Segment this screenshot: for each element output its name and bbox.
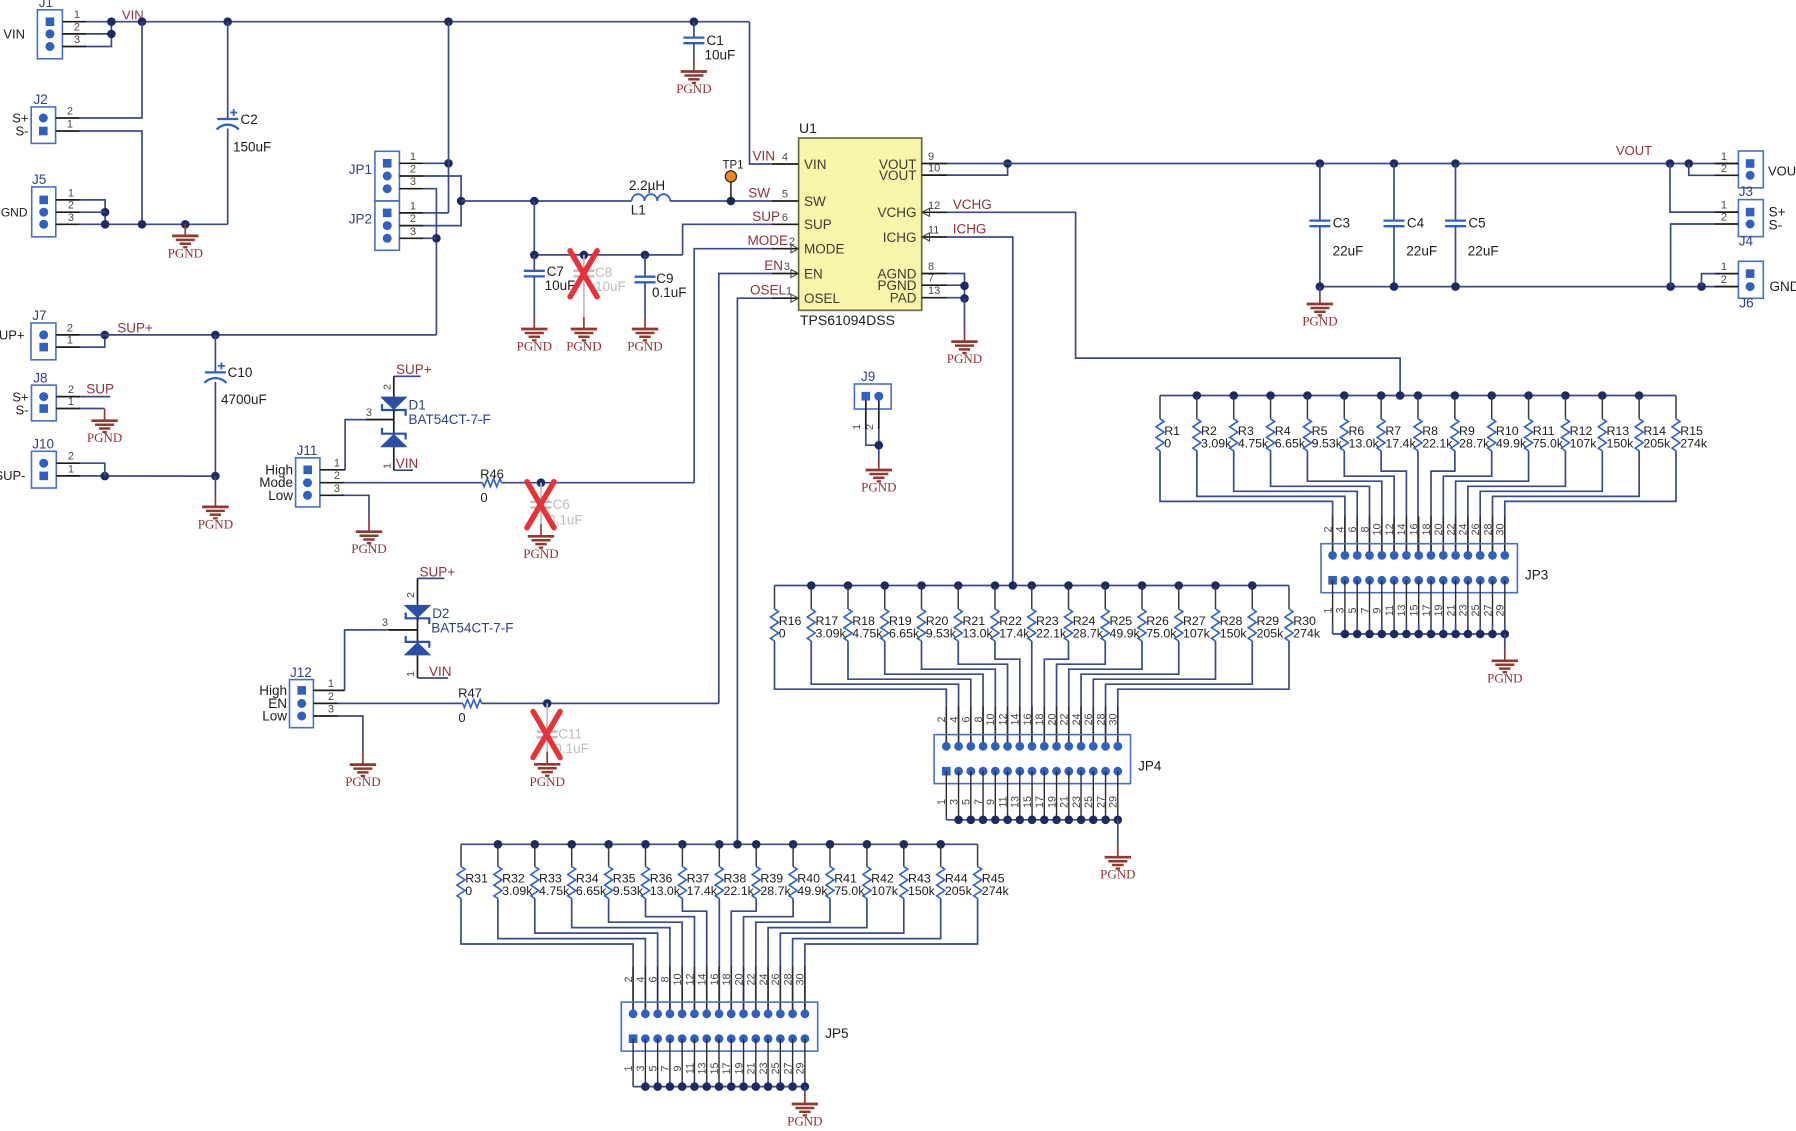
wire J2 S- to GND bus xyxy=(80,131,142,224)
svg-text:6.65k: 6.65k xyxy=(889,627,920,641)
wire R45 to JP5 pin 30 xyxy=(805,899,978,1014)
wire R6 to JP3 pin 12 xyxy=(1344,451,1394,556)
resistor R13 xyxy=(1598,396,1634,451)
JP3 even pin numbers xyxy=(1322,523,1506,535)
wire R26 to JP4 pin 22 xyxy=(1069,641,1142,746)
connector J8 xyxy=(12,370,80,421)
svg-text:SW: SW xyxy=(748,186,770,201)
connector J1 xyxy=(3,0,86,59)
connector J11 xyxy=(259,443,345,507)
wire R9 to JP3 pin 18 xyxy=(1431,451,1455,556)
svg-text:3: 3 xyxy=(334,483,340,495)
U1 pin 11 ICHG stub xyxy=(922,225,947,242)
svg-text:JP3: JP3 xyxy=(1525,568,1548,583)
capacitor C3 xyxy=(1309,164,1363,287)
wire R19 to JP4 pin 8 xyxy=(885,641,983,746)
svg-text:PGND: PGND xyxy=(627,339,662,354)
resistor R44 xyxy=(937,844,973,898)
wire J6.1 to GND bus xyxy=(1702,274,1715,287)
wire R37 to JP5 pin 14 xyxy=(682,899,706,1014)
svg-text:150k: 150k xyxy=(1220,627,1248,641)
svg-text:S-: S- xyxy=(16,403,29,418)
svg-text:1: 1 xyxy=(334,457,340,469)
svg-text:30: 30 xyxy=(1495,523,1507,535)
svg-text:SUP-: SUP- xyxy=(0,468,26,483)
svg-text:1: 1 xyxy=(851,424,863,430)
svg-text:16: 16 xyxy=(1022,713,1034,725)
capacitor C5 xyxy=(1445,164,1499,287)
ground PGND at U1 PAD xyxy=(947,330,982,366)
IC U1 TPS61094DSS xyxy=(799,120,922,328)
svg-text:PGND: PGND xyxy=(523,546,558,561)
ground PGND at C11 xyxy=(529,752,564,789)
wire cap bus xyxy=(530,251,683,260)
svg-text:PGND: PGND xyxy=(947,351,982,366)
U1 pin 3 EN stub xyxy=(772,261,799,278)
svg-text:28.7k: 28.7k xyxy=(760,884,791,898)
svg-text:75.0k: 75.0k xyxy=(1146,627,1177,641)
svg-text:6.65k: 6.65k xyxy=(576,884,607,898)
svg-text:C1: C1 xyxy=(707,33,724,48)
wire R29 to JP4 pin 28 xyxy=(1106,641,1253,746)
ground PGND at J11 xyxy=(351,520,386,556)
connector J2 xyxy=(12,92,79,143)
svg-text:75.0k: 75.0k xyxy=(834,884,865,898)
capacitor C1 xyxy=(683,22,735,63)
resistor R2 xyxy=(1193,396,1232,451)
svg-text:2: 2 xyxy=(864,424,876,430)
connector J6 xyxy=(1714,261,1796,310)
svg-text:22uF: 22uF xyxy=(1333,244,1364,259)
wire R33 to JP5 pin 6 xyxy=(535,899,658,1014)
U1 pin 7 PGND stub xyxy=(922,273,947,286)
svg-text:EN: EN xyxy=(804,266,823,281)
resistor R30 xyxy=(1285,586,1321,642)
wire J10 pin tie xyxy=(80,463,105,476)
svg-text:10: 10 xyxy=(985,713,997,725)
svg-text:0: 0 xyxy=(779,627,786,641)
svg-text:MODE: MODE xyxy=(748,233,789,248)
svg-text:1: 1 xyxy=(1721,261,1727,273)
svg-text:22: 22 xyxy=(1059,713,1071,725)
svg-text:9: 9 xyxy=(928,151,934,163)
svg-text:VOUT: VOUT xyxy=(879,168,917,183)
svg-text:C9: C9 xyxy=(656,271,673,286)
svg-text:Low: Low xyxy=(262,709,287,724)
svg-text:18: 18 xyxy=(1421,523,1433,535)
svg-text:D2: D2 xyxy=(432,606,449,621)
svg-text:4: 4 xyxy=(635,976,647,982)
resistor R47 xyxy=(458,686,482,726)
wire R35 to JP5 pin 10 xyxy=(609,899,683,1014)
svg-text:ICHG: ICHG xyxy=(953,222,987,237)
svg-text:4700uF: 4700uF xyxy=(221,392,267,407)
svg-text:PGND: PGND xyxy=(345,774,380,789)
wire SUP riser xyxy=(683,224,772,255)
wire EN riser to U1 xyxy=(719,274,772,704)
svg-text:9.53k: 9.53k xyxy=(1312,436,1343,450)
resistor R38 xyxy=(715,844,754,898)
svg-text:PGND: PGND xyxy=(168,245,203,260)
resistor R22 xyxy=(991,586,1030,642)
svg-text:1: 1 xyxy=(68,463,74,475)
wire OSEL riser to U1 xyxy=(737,298,772,844)
svg-text:6: 6 xyxy=(961,716,973,722)
svg-text:205k: 205k xyxy=(1256,627,1284,641)
svg-text:6: 6 xyxy=(1347,526,1359,532)
resistor R4 xyxy=(1267,396,1306,451)
svg-text:VIN: VIN xyxy=(3,27,25,42)
ground PGND at C1 xyxy=(676,60,711,97)
net label SUP xyxy=(80,382,114,397)
svg-text:VCHG: VCHG xyxy=(877,205,916,220)
svg-text:9.53k: 9.53k xyxy=(926,627,957,641)
resistor R18 xyxy=(844,586,883,642)
wire R18 to JP4 pin 6 xyxy=(848,641,971,746)
svg-text:2: 2 xyxy=(68,451,74,463)
svg-text:18: 18 xyxy=(1034,713,1046,725)
wire JP5 bottom bus to ground xyxy=(633,1039,809,1091)
svg-text:49.9k: 49.9k xyxy=(1109,627,1140,641)
svg-text:PGND: PGND xyxy=(1302,314,1337,329)
svg-text:22.1k: 22.1k xyxy=(1036,627,1067,641)
resistor R42 xyxy=(863,844,899,898)
svg-text:20: 20 xyxy=(1433,523,1445,535)
svg-text:10: 10 xyxy=(1372,523,1384,535)
svg-text:8: 8 xyxy=(928,261,934,273)
svg-text:1: 1 xyxy=(328,678,334,690)
ground PGND at JP5 xyxy=(787,1087,822,1129)
wire R39 to JP5 pin 18 xyxy=(731,899,756,1014)
svg-text:2: 2 xyxy=(74,21,80,33)
svg-text:16: 16 xyxy=(709,973,721,985)
svg-text:VCHG: VCHG xyxy=(953,197,992,212)
resistor R7 xyxy=(1377,396,1416,451)
svg-text:3.09k: 3.09k xyxy=(815,627,846,641)
svg-text:JP5: JP5 xyxy=(825,1026,848,1041)
test point TP1 xyxy=(722,160,743,202)
resistor R9 xyxy=(1451,396,1490,451)
U1 pin 12 VCHG stub xyxy=(922,200,947,217)
svg-text:28.7k: 28.7k xyxy=(1459,436,1490,450)
wire R12 to JP3 pin 24 xyxy=(1468,451,1566,556)
wire R5 to JP3 pin 10 xyxy=(1307,451,1381,556)
resistor R45 xyxy=(974,844,1010,898)
svg-text:14: 14 xyxy=(1396,523,1408,535)
svg-text:24: 24 xyxy=(1458,523,1470,535)
svg-text:J11: J11 xyxy=(297,443,318,458)
svg-text:75.0k: 75.0k xyxy=(1533,436,1564,450)
net label VOUT xyxy=(1616,143,1652,158)
svg-text:0: 0 xyxy=(458,710,465,725)
header JP4 xyxy=(934,735,1162,784)
svg-text:1: 1 xyxy=(405,671,417,677)
svg-text:C7: C7 xyxy=(547,264,564,279)
svg-text:28.7k: 28.7k xyxy=(1073,627,1104,641)
svg-text:JP1: JP1 xyxy=(349,162,372,177)
resistor R6 xyxy=(1340,396,1379,451)
svg-text:MODE: MODE xyxy=(804,242,845,257)
svg-text:18: 18 xyxy=(721,973,733,985)
svg-text:ICHG: ICHG xyxy=(883,230,917,245)
ground PGND at J8 xyxy=(87,409,122,446)
svg-text:VOUT: VOUT xyxy=(1768,164,1796,179)
svg-text:Low: Low xyxy=(268,488,293,503)
resistor R19 xyxy=(881,586,920,642)
net label SW at U1 xyxy=(748,186,770,201)
ground PGND at C9 xyxy=(627,317,662,354)
svg-text:8: 8 xyxy=(1359,526,1371,532)
resistor R21 xyxy=(954,586,993,642)
wire J12.3 to ground xyxy=(338,716,363,753)
svg-text:13.0k: 13.0k xyxy=(650,884,681,898)
resistor R8 xyxy=(1414,396,1453,451)
wire R38 to JP5 pin 16 xyxy=(718,899,720,1014)
ground PGND at C10 xyxy=(198,476,233,531)
resistor R1 xyxy=(1156,396,1180,451)
ground PGND at C7 xyxy=(517,317,552,354)
svg-text:20: 20 xyxy=(733,973,745,985)
resistor R14 xyxy=(1635,396,1671,451)
svg-text:PGND: PGND xyxy=(1487,670,1522,685)
resistor R35 xyxy=(605,844,644,898)
wire R41 to JP5 pin 22 xyxy=(756,899,830,1014)
svg-text:28: 28 xyxy=(1482,523,1494,535)
diode D2 BAT54CT-7-F xyxy=(404,578,514,678)
wire VCHG route to JP3 bus xyxy=(947,212,1400,395)
wire R27 to JP4 pin 24 xyxy=(1081,641,1179,746)
svg-text:107k: 107k xyxy=(1183,627,1211,641)
capacitor C4 xyxy=(1384,164,1438,287)
svg-text:2: 2 xyxy=(410,164,416,176)
net label VIN xyxy=(122,8,144,23)
svg-text:4: 4 xyxy=(782,152,788,164)
svg-text:PGND: PGND xyxy=(676,81,711,96)
ground PGND at J12 xyxy=(345,753,380,789)
svg-text:VIN: VIN xyxy=(804,157,827,172)
svg-text:3: 3 xyxy=(366,407,372,419)
svg-text:SUP: SUP xyxy=(752,209,780,224)
svg-text:J2: J2 xyxy=(34,92,48,107)
X-out mark over C8 xyxy=(570,251,597,297)
svg-text:24: 24 xyxy=(758,973,770,985)
wire VIN rail xyxy=(86,17,749,26)
resistor R17 xyxy=(807,586,846,642)
wire J7 pin tie xyxy=(80,331,109,348)
svg-text:16: 16 xyxy=(1409,523,1421,535)
connector J4 xyxy=(1714,200,1785,249)
svg-text:OSEL: OSEL xyxy=(750,283,787,298)
wire ICHG route to JP4 bus xyxy=(947,237,1013,586)
wire R20 to JP4 pin 10 xyxy=(922,641,996,746)
wire D2 pin3 to J12.1 xyxy=(345,617,418,690)
wire R1 to JP3 pin 2 xyxy=(1160,451,1333,556)
resistor R12 xyxy=(1561,396,1597,451)
U1 pin 1 OSEL stub xyxy=(772,286,799,303)
wire R44 to JP5 pin 28 xyxy=(793,899,941,1014)
JP3 odd pin numbers xyxy=(1322,604,1506,616)
svg-text:3: 3 xyxy=(328,704,334,716)
svg-text:2: 2 xyxy=(68,200,74,212)
resistor R43 xyxy=(900,844,936,898)
svg-text:107k: 107k xyxy=(871,884,899,898)
wire R34 to JP5 pin 8 xyxy=(572,899,670,1014)
svg-text:1: 1 xyxy=(68,187,74,199)
wire R2 to JP3 pin 4 xyxy=(1197,451,1345,556)
wire MODE net xyxy=(344,478,694,487)
connector J3 xyxy=(1714,151,1796,199)
svg-text:49.9k: 49.9k xyxy=(797,884,828,898)
wire R25 to JP4 pin 20 xyxy=(1057,641,1106,746)
net label EN at U1 xyxy=(764,258,783,273)
capacitor C8 (not populated) xyxy=(573,255,625,317)
resistor R11 xyxy=(1525,396,1564,451)
wire VIN riser to U1 xyxy=(750,22,773,164)
wire J1 pins 2-3 tie xyxy=(86,22,115,47)
svg-text:PAD: PAD xyxy=(890,291,917,306)
wire R11 to JP3 pin 22 xyxy=(1456,451,1529,556)
svg-text:17.4k: 17.4k xyxy=(999,627,1030,641)
net label ICHG xyxy=(953,222,987,237)
svg-text:2: 2 xyxy=(1721,274,1727,286)
resistor R5 xyxy=(1303,396,1342,451)
wire J11.3 to ground xyxy=(344,495,369,519)
svg-text:3: 3 xyxy=(784,261,790,273)
wire JP4 bottom bus to ground xyxy=(946,771,1122,824)
wire SW to U1 xyxy=(670,197,772,206)
connector J12 xyxy=(259,665,344,728)
svg-text:4: 4 xyxy=(948,716,960,722)
svg-text:3: 3 xyxy=(68,212,74,224)
capacitor C6 (not populated) xyxy=(531,483,583,528)
svg-text:PGND: PGND xyxy=(861,480,896,495)
svg-text:J12: J12 xyxy=(290,665,312,680)
svg-text:1: 1 xyxy=(74,9,80,21)
svg-text:274k: 274k xyxy=(1293,627,1321,641)
svg-text:D1: D1 xyxy=(409,398,426,413)
ground PGND at C6 xyxy=(523,524,558,561)
net label VIN at D2 xyxy=(418,664,452,679)
svg-text:1: 1 xyxy=(410,200,416,212)
net label SUP at U1 xyxy=(752,209,780,224)
svg-text:4.75k: 4.75k xyxy=(1238,436,1269,450)
resistor R46 xyxy=(480,467,504,506)
svg-text:2: 2 xyxy=(68,384,74,396)
svg-text:3.09k: 3.09k xyxy=(502,884,533,898)
wire R16 to JP4 pin 2 xyxy=(775,641,947,746)
svg-text:C10: C10 xyxy=(228,365,253,380)
wire R1-R15 top bus xyxy=(1160,391,1676,400)
wire D1 pin3 to J11.1 xyxy=(345,407,394,470)
svg-text:22uF: 22uF xyxy=(1406,244,1437,259)
wire R30 to JP4 pin 30 xyxy=(1118,641,1289,746)
svg-text:C8: C8 xyxy=(595,265,612,280)
svg-text:C4: C4 xyxy=(1407,216,1425,231)
svg-text:3.09k: 3.09k xyxy=(1201,436,1232,450)
ground PGND at JP3 xyxy=(1487,634,1522,685)
svg-text:274k: 274k xyxy=(1680,436,1708,450)
ground PGND at J9 xyxy=(861,458,896,495)
svg-text:J3: J3 xyxy=(1739,184,1753,199)
svg-text:J10: J10 xyxy=(32,437,54,452)
svg-text:13.0k: 13.0k xyxy=(1348,436,1379,450)
svg-text:8: 8 xyxy=(973,716,985,722)
svg-text:17.4k: 17.4k xyxy=(1385,436,1416,450)
wire R13 to JP3 pin 26 xyxy=(1480,451,1602,556)
svg-text:VIN: VIN xyxy=(752,149,775,164)
svg-text:2: 2 xyxy=(405,592,417,598)
resistor R37 xyxy=(678,844,717,898)
wire VOUT rail xyxy=(947,159,1738,168)
JP5 odd pin numbers xyxy=(623,1062,807,1074)
svg-text:SUP+: SUP+ xyxy=(420,565,456,580)
net label VCHG xyxy=(953,197,992,212)
svg-text:J7: J7 xyxy=(32,308,46,323)
svg-text:10: 10 xyxy=(928,163,940,175)
svg-text:7: 7 xyxy=(928,273,934,285)
wire R40 to JP5 pin 20 xyxy=(744,899,794,1014)
svg-text:2: 2 xyxy=(1721,212,1727,224)
resistor R20 xyxy=(918,586,957,642)
wire GND bus xyxy=(80,220,228,229)
svg-text:PGND: PGND xyxy=(198,516,233,531)
capacitor C11 (not populated) xyxy=(537,703,589,756)
resistor R23 xyxy=(1028,586,1067,642)
resistor R24 xyxy=(1065,586,1104,642)
svg-text:12: 12 xyxy=(997,713,1009,725)
capacitor C7 xyxy=(524,255,576,317)
svg-text:VIN: VIN xyxy=(429,664,452,679)
wire J8 S- to ground xyxy=(80,408,104,410)
svg-text:24: 24 xyxy=(1071,713,1083,725)
U1 pin 8 AGND stub xyxy=(922,261,947,274)
X-out mark over C6 xyxy=(527,482,554,528)
svg-text:J5: J5 xyxy=(32,172,46,187)
wire J3.2 to VOUT rail xyxy=(1689,164,1715,176)
svg-text:J6: J6 xyxy=(1739,296,1753,311)
svg-text:205k: 205k xyxy=(945,884,973,898)
svg-text:C5: C5 xyxy=(1468,216,1485,231)
resistor R25 xyxy=(1101,586,1140,642)
wire SUP+ bus xyxy=(80,331,437,340)
svg-text:TPS61094DSS: TPS61094DSS xyxy=(800,312,895,328)
svg-text:3: 3 xyxy=(74,34,80,46)
svg-text:2: 2 xyxy=(936,716,948,722)
svg-text:J4: J4 xyxy=(1739,234,1754,249)
svg-text:274k: 274k xyxy=(982,884,1010,898)
svg-text:1: 1 xyxy=(67,335,73,347)
svg-text:EN: EN xyxy=(764,258,783,273)
svg-text:150uF: 150uF xyxy=(233,140,271,155)
capacitor C2 xyxy=(217,22,272,225)
svg-text:6: 6 xyxy=(647,976,659,982)
svg-text:2: 2 xyxy=(1721,163,1727,175)
resistor R31 xyxy=(457,844,488,898)
wire output GND bus xyxy=(1316,282,1739,291)
wire J4.2 to GND bus xyxy=(1671,224,1715,287)
capacitor C9 xyxy=(635,255,687,317)
svg-text:S-: S- xyxy=(16,124,29,139)
svg-text:6.65k: 6.65k xyxy=(1275,436,1306,450)
wire R21 to JP4 pin 12 xyxy=(958,641,1007,746)
wire R4 to JP3 pin 8 xyxy=(1271,451,1370,556)
svg-text:2: 2 xyxy=(67,106,73,118)
wire R7 to JP3 pin 14 xyxy=(1381,451,1406,556)
svg-text:PGND: PGND xyxy=(87,430,122,445)
svg-text:C2: C2 xyxy=(241,112,258,127)
svg-text:R46: R46 xyxy=(480,467,504,482)
svg-text:2: 2 xyxy=(334,470,340,482)
